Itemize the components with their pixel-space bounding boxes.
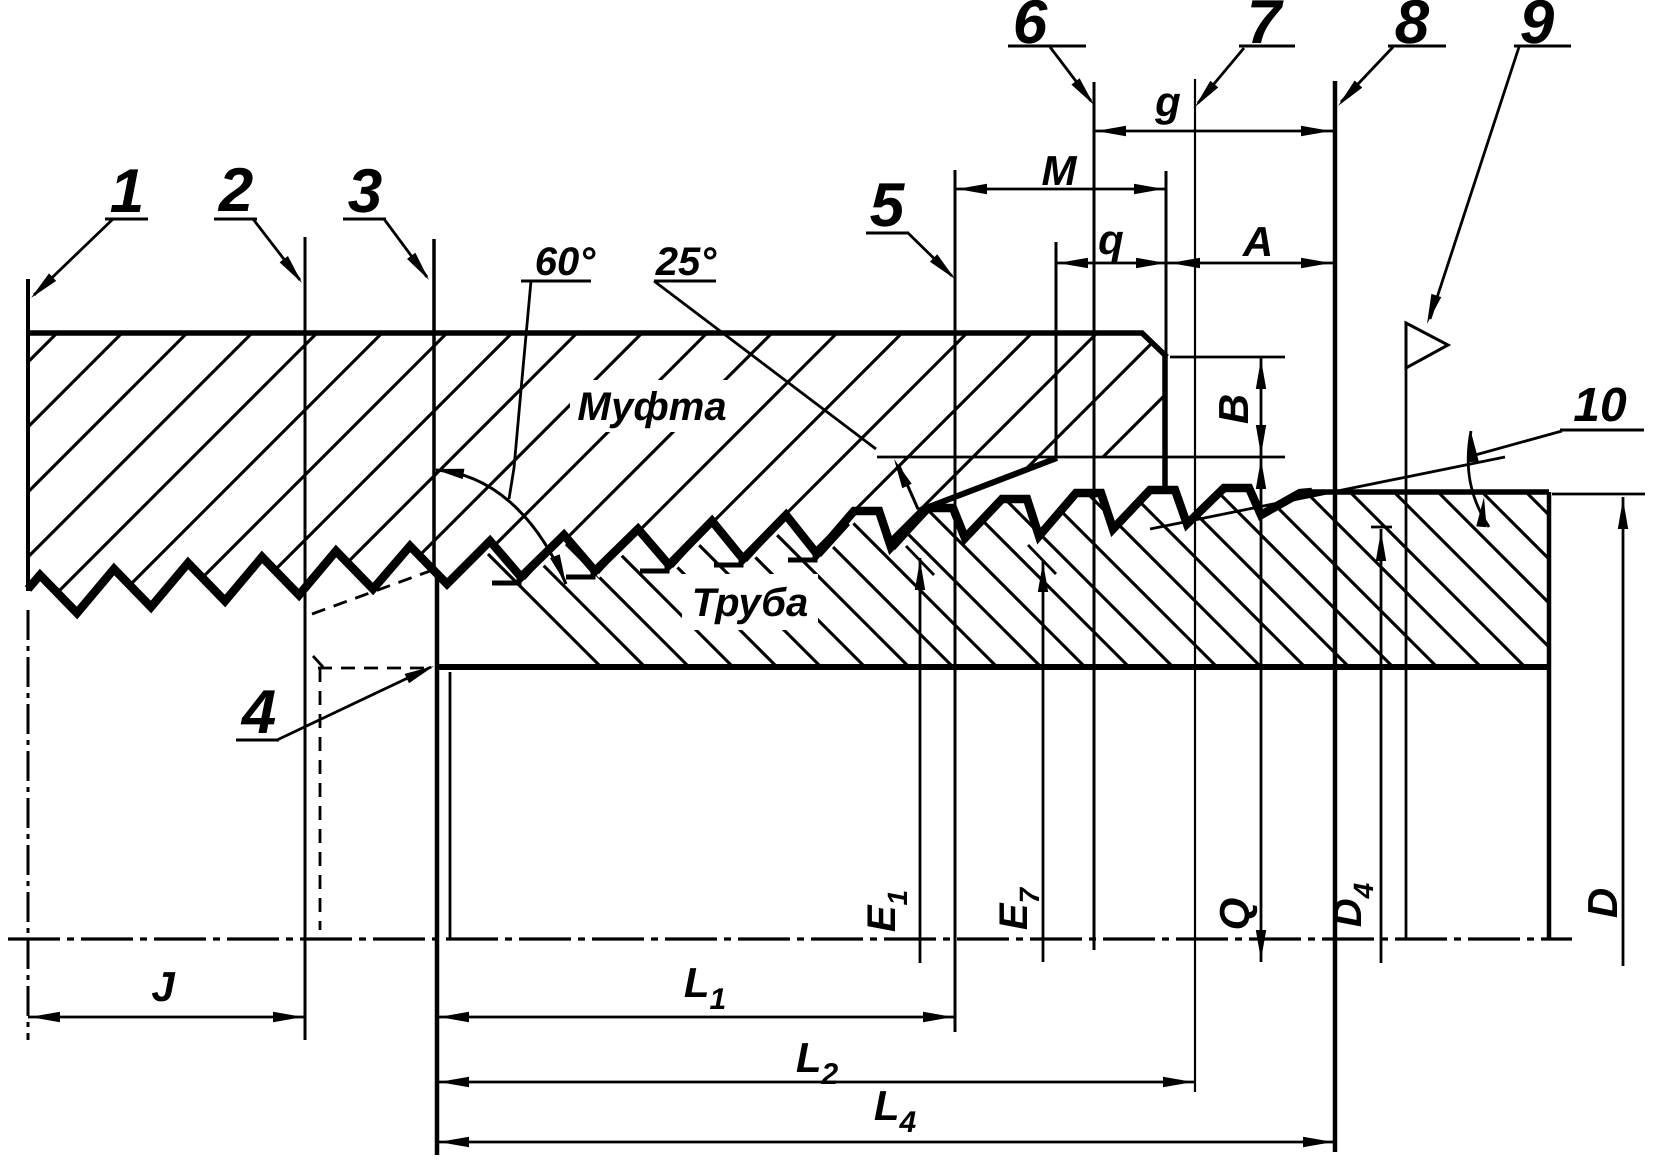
pipe right end edge	[1547, 492, 1552, 667]
dimension D4 tick	[1371, 526, 1392, 529]
svg-text:10: 10	[1573, 379, 1627, 432]
hidden thread runout (dashed diagonal)	[312, 571, 430, 614]
dimension q line	[1056, 262, 1168, 265]
callout 10 leader	[1468, 431, 1562, 457]
dimension A line	[1168, 262, 1333, 265]
dimension D arrow	[1618, 499, 1628, 529]
dimension L4 arrows	[439, 1137, 469, 1147]
dimension M line	[955, 188, 1166, 191]
dimension L4 line	[437, 1141, 1335, 1144]
dimension Q line	[1260, 457, 1263, 962]
dimension A arrows	[1170, 258, 1200, 268]
pipe end face	[435, 570, 440, 1155]
callout 9 leader	[1430, 47, 1519, 319]
svg-text:7: 7	[1247, 0, 1284, 57]
pipe end inner chamfer line	[449, 672, 452, 938]
hidden bore line (dashed vertical)	[319, 668, 322, 930]
svg-text:2: 2	[218, 156, 253, 225]
25 deg taper arrow	[899, 466, 918, 509]
svg-text:Муфта: Муфта	[577, 385, 726, 429]
E7 clearance tick	[1028, 545, 1056, 574]
dimension D extension line	[1552, 493, 1645, 496]
svg-text:6: 6	[1013, 0, 1048, 57]
dimension J arrows	[30, 1012, 60, 1022]
60 deg leader	[509, 281, 531, 499]
thread profile (interlocked sawtooth)	[28, 488, 1312, 613]
label Truba (pipe)	[682, 574, 818, 630]
dimension D4 line	[1380, 529, 1383, 963]
svg-text:Q: Q	[1211, 898, 1258, 931]
callout 6 leader	[1050, 47, 1091, 101]
dimension E1 line	[919, 558, 922, 963]
pipe bore bottom edge	[435, 664, 1551, 670]
svg-text:g: g	[1154, 78, 1181, 125]
25 deg leader	[654, 281, 876, 449]
q-plane extension line	[1055, 242, 1058, 457]
dimension M arrows	[957, 184, 987, 194]
coupling left face	[26, 279, 30, 591]
surface finish flag	[1406, 323, 1448, 368]
svg-text:8: 8	[1395, 0, 1430, 57]
svg-text:q: q	[1098, 216, 1124, 263]
axis centerline (dash-dot)	[8, 937, 1572, 940]
coupling end face (thick)	[1162, 355, 1168, 491]
coupling top edge	[28, 330, 1143, 336]
callout 2 leader	[253, 219, 300, 280]
reference line 2	[304, 237, 307, 1040]
dimension D line	[1622, 497, 1625, 966]
svg-text:4: 4	[240, 678, 276, 747]
dimension B line	[1260, 357, 1263, 457]
dimension J line	[28, 1016, 305, 1019]
svg-text:3: 3	[348, 157, 382, 226]
callout 1 leader	[34, 219, 113, 295]
pipe right end extension below	[1547, 667, 1552, 938]
thread clearance gap lines	[524, 517, 923, 579]
dimension E1 arrow	[915, 560, 925, 590]
reference line 7	[1194, 79, 1196, 1092]
pipe thread root flats (clearance steps)	[492, 549, 815, 583]
svg-text:Труба: Труба	[692, 581, 809, 625]
reference line 6	[1093, 82, 1096, 950]
callout 5 leader	[908, 233, 952, 276]
dimension L1 arrows	[439, 1012, 469, 1022]
60 deg angle arc	[436, 470, 566, 584]
callout 3 leader	[384, 219, 427, 277]
reference line 3 upper part	[432, 239, 436, 570]
reference line 5	[954, 170, 957, 1032]
callout 8 leader	[1341, 47, 1393, 102]
svg-text:1: 1	[110, 157, 144, 226]
coupling thread runout taper (thick)	[918, 458, 1057, 511]
hidden line (dashed horizontal)	[318, 667, 432, 670]
dimension B extension line	[1170, 356, 1285, 359]
svg-text:J: J	[151, 963, 176, 1010]
pipe cross-hatch	[404, 470, 1654, 700]
svg-text:60°: 60°	[535, 240, 596, 284]
callout 7 leader	[1198, 48, 1244, 103]
taper angle arc (10)	[1468, 431, 1489, 527]
callout 4 leader	[277, 667, 431, 740]
svg-text:B: B	[1210, 394, 1257, 424]
dimension E7 line	[1042, 560, 1045, 962]
dimension g line	[1094, 130, 1333, 133]
svg-text:M: M	[1042, 147, 1078, 194]
E1 clearance tick	[906, 546, 934, 575]
svg-text:5: 5	[870, 171, 906, 240]
dimension L2 line	[437, 1081, 1195, 1084]
surface finish flag pole	[1405, 326, 1408, 938]
dimension q arrows	[1058, 258, 1088, 268]
coupling face centerline continuation (dash-dot)	[27, 610, 30, 1040]
coupling end face extension up	[1165, 171, 1168, 357]
dimension L1 line	[437, 1016, 955, 1019]
pipe cylinder surface	[1308, 489, 1549, 495]
thread cone extension line	[1150, 457, 1505, 529]
svg-text:D: D	[1579, 888, 1626, 918]
dimension L2 arrows	[439, 1077, 469, 1087]
svg-text:A: A	[1242, 218, 1273, 265]
dimension Q arrows	[1256, 459, 1266, 489]
dimension g arrows	[1096, 126, 1126, 136]
coupling cross-hatch	[0, 330, 1490, 640]
coupling end chamfer	[1141, 332, 1167, 357]
dimension B arrows	[1256, 359, 1266, 389]
dimension E7 arrow	[1038, 562, 1048, 592]
svg-text:25°: 25°	[655, 240, 717, 284]
reference line 8	[1333, 81, 1338, 1152]
dimension D4 arrow	[1376, 531, 1386, 561]
label Mufta (coupling)	[570, 380, 734, 432]
svg-text:9: 9	[1520, 0, 1555, 57]
hidden corner chamfer	[313, 656, 323, 667]
coupling recess bore line	[877, 456, 1285, 459]
